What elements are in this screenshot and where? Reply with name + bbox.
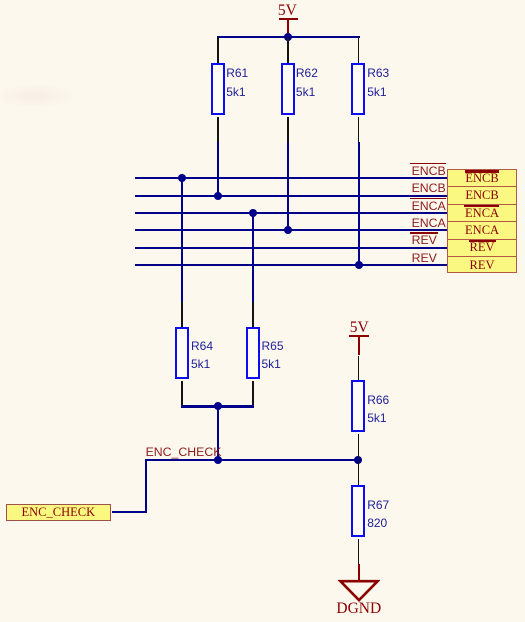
ground DGND bbox=[0, 0, 525, 1]
wire w1 to R64 bbox=[181, 177, 183, 302]
port REV\ bbox=[447, 239, 518, 256]
wire R64-R65 bottom join bbox=[181, 405, 254, 407]
port ENC_CHECK (box) bbox=[6, 504, 112, 521]
net label ENCA bbox=[412, 217, 446, 229]
resistor R64 bbox=[0, 0, 525, 1]
wire ENC_CHECK vertical riser bbox=[145, 459, 147, 513]
wire R63 to REV bbox=[358, 142, 360, 266]
junction dot w2/R61 bbox=[214, 192, 222, 200]
resistor R65 bbox=[0, 0, 525, 1]
junction dot w6/R63 bbox=[355, 261, 363, 269]
wire net ENCB\ bbox=[135, 177, 447, 179]
port REV bbox=[447, 256, 518, 273]
resistor R62 bbox=[0, 0, 525, 1]
junction dot w4/R62 bbox=[284, 226, 292, 234]
wire top rail bbox=[217, 36, 360, 38]
wire join down to ENC_CHECK bbox=[217, 407, 219, 461]
resistor R63 bbox=[0, 0, 525, 1]
net label REV\ bbox=[0, 0, 525, 1]
power 5V P2 bbox=[0, 0, 525, 1]
junction dot ENC_CHECK/R64R65 bbox=[214, 456, 222, 464]
net label ENC_CHECK bbox=[146, 446, 222, 458]
power 5V P1 bbox=[0, 0, 525, 1]
wire net REV bbox=[135, 264, 447, 266]
net label REV bbox=[412, 252, 437, 264]
port box right frame bbox=[447, 169, 518, 273]
resistor R61 bbox=[0, 0, 525, 1]
port ENCA\ bbox=[447, 204, 518, 221]
wire w3 to R65 bbox=[252, 212, 254, 303]
port ENCA bbox=[447, 221, 518, 238]
port ENCB bbox=[447, 186, 518, 203]
wire R61 to ENCB bbox=[217, 142, 219, 196]
port ENCB\ bbox=[447, 169, 518, 186]
resistor R67 bbox=[0, 0, 525, 1]
wire net ENCA bbox=[135, 229, 447, 231]
junction dot ENC_CHECK/R66R67 bbox=[354, 456, 362, 464]
wire from port box bbox=[112, 511, 147, 513]
wire net ENCB bbox=[135, 195, 447, 197]
junction dot w3/R65 bbox=[249, 209, 257, 217]
wire net REV\ bbox=[135, 247, 447, 249]
resistor R66 bbox=[0, 0, 525, 1]
wire R62 to ENCA bbox=[287, 142, 289, 231]
net label ENCB bbox=[412, 182, 446, 194]
junction dot 5V node bbox=[284, 33, 292, 41]
wire net ENC_CHECK horizontal bbox=[145, 459, 359, 461]
faint smudge (decorative) bbox=[2, 84, 77, 106]
net label ENCA\ bbox=[0, 0, 525, 1]
wire net ENCA\ bbox=[135, 212, 447, 214]
junction dot w1/R64 bbox=[178, 174, 186, 182]
net label ENCB\ bbox=[0, 0, 525, 1]
junction dot R64/R65 bbox=[214, 402, 222, 410]
